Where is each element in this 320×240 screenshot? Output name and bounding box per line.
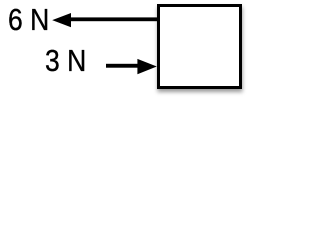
wire: 6 N force arrow shaft — [69, 17, 158, 21]
3 N arrowhead (points right) — [137, 59, 156, 74]
box (block) — [157, 4, 242, 89]
6 N arrowhead (points left) — [52, 13, 71, 27]
arrows svg — [0, 0, 275, 101]
wire: 3 N force arrow shaft — [106, 64, 139, 68]
label 3 N — [45, 45, 86, 76]
label 6 N — [8, 4, 49, 35]
